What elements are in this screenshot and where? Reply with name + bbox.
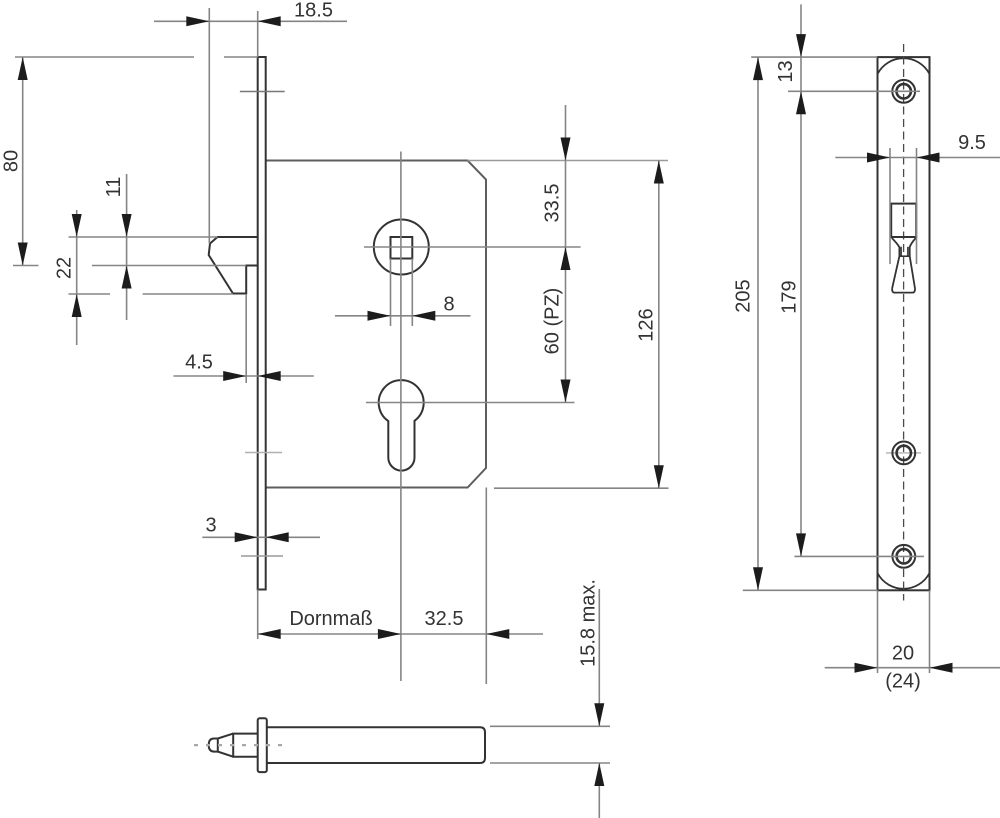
svg-text:15.8 max.: 15.8 max. [578,579,600,667]
svg-text:18.5: 18.5 [294,0,333,22]
dim 205 [757,57,759,590]
top hole centre extension [788,90,920,92]
dim 179 [796,533,806,556]
dim 80 [15,56,194,58]
dim 20 [825,667,1000,669]
svg-text:4.5: 4.5 [185,352,213,374]
plate bottom extension [743,589,878,591]
screw hole top [892,80,915,103]
svg-text:Dornmaß: Dornmaß [289,608,372,630]
screw hole tick (side, middle) [245,452,282,454]
follower centre line [364,246,581,248]
screw hole tick (side, top) [240,91,285,93]
svg-text:3: 3 [205,515,216,537]
svg-text:126: 126 [636,308,658,341]
profile cylinder hole (PZ) [379,380,424,470]
latch bevel (front view) [892,238,900,289]
latch bevel bottom edge [892,289,915,293]
dim 60 (PZ) [561,380,571,403]
PZ centre line [366,402,575,404]
dim 3 [202,536,320,538]
bottom hole centre extension [794,555,924,557]
case top extension [468,160,668,162]
screw hole tick (side, bottom) [241,555,283,557]
latch mid extension [92,265,246,267]
dim 15.8 max [490,725,610,727]
dim 33.5 [565,105,567,403]
spindle taper [218,734,233,757]
latch slot extension lines [889,148,891,264]
case right extension [485,488,487,685]
dashed centre line (front view) [903,44,905,601]
svg-text:(24): (24) [885,671,921,693]
forend plate (front view) [878,57,930,590]
svg-text:33.5: 33.5 [542,184,564,223]
spindle collar [258,718,267,772]
dim Dornmass [258,633,543,635]
spindle square hole [391,237,413,259]
svg-text:20: 20 [892,643,914,665]
svg-text:9.5: 9.5 [958,132,986,154]
spindle nose [209,739,218,752]
svg-text:205: 205 [733,279,755,312]
svg-text:60 (PZ): 60 (PZ) [542,288,564,355]
dim 11 [126,174,128,320]
dim 8 [390,259,392,327]
dim 4.5 [245,294,247,383]
spindle rod [267,727,485,763]
vertical centre line [400,152,402,682]
spindle centre line (dashed) [194,744,284,746]
faceplate bottom extension [257,590,259,640]
dim 22 [76,210,78,345]
latch bottom extension [69,293,111,295]
top end radius [878,58,930,74]
dim 32.5 [486,629,509,639]
plate top extension [751,56,877,58]
svg-text:32.5: 32.5 [425,608,464,630]
bottom end radius [878,573,930,589]
spindle cylinder [233,734,258,757]
screw hole bottom [892,545,915,568]
svg-text:80: 80 [1,150,23,172]
dim 126 [658,161,660,489]
case bottom extension [494,487,669,489]
lock case (side view) [266,161,487,488]
screw hole middle [886,452,921,454]
dim 18.5 [208,8,210,244]
follower hub circle [374,220,429,275]
latch top extension [69,236,218,238]
svg-text:22: 22 [54,257,76,279]
svg-text:8: 8 [443,294,454,316]
svg-text:11: 11 [103,177,125,198]
svg-text:13: 13 [775,60,797,82]
plate width extensions [877,590,879,673]
faceplate (side view) [258,57,266,590]
dim 9.5 [835,157,1000,159]
latch bolt (side view) [209,237,258,294]
latch head (front view) [891,204,916,237]
svg-text:179: 179 [779,280,801,313]
dim 13 [800,4,802,556]
